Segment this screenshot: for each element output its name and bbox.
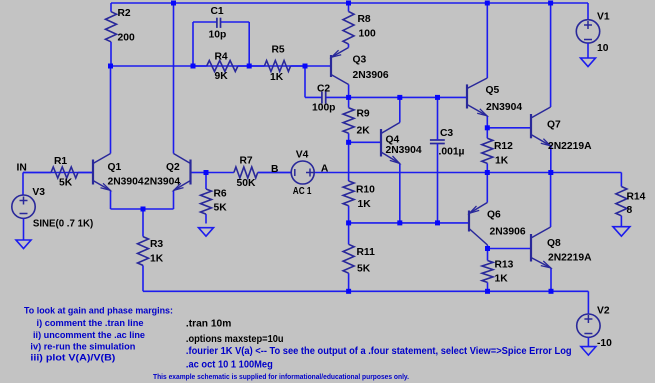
svg-text:5K: 5K [59,178,73,189]
svg-text:9K: 9K [215,71,229,82]
svg-text:2N3906: 2N3906 [490,227,526,238]
voltage source V1 [576,20,599,43]
resistor R9 [343,97,354,142]
svg-text:A: A [321,163,329,174]
svg-text:.options maxstep=10u: .options maxstep=10u [186,334,284,345]
svg-text:Q1: Q1 [108,162,122,173]
resistor R6 label [214,188,228,213]
svg-text:1K: 1K [150,254,164,265]
svg-text:C1: C1 [211,6,224,17]
svg-text:R9: R9 [357,108,370,119]
wire Q7 emitter drop [550,146,552,173]
resistor R8 label [358,14,376,40]
svg-text:100p: 100p [312,102,335,113]
wire Q2 emitter drop [173,191,175,210]
svg-text:50K: 50K [237,178,256,189]
wire V2 feed [587,291,589,314]
transistor Q6 [469,203,488,246]
node B [271,164,278,175]
node A [321,163,329,174]
resistor R5 [249,61,305,72]
svg-text:SINE(0 .7 1K): SINE(0 .7 1K) [33,218,93,229]
resistor R3 [138,209,149,265]
voltage source V3 label [32,187,93,229]
svg-text:Q2: Q2 [166,162,180,173]
svg-text:200: 200 [118,33,135,44]
directive fourier [186,346,572,357]
node IN [17,163,27,174]
svg-text:B: B [271,164,278,175]
svg-text:2N3904: 2N3904 [486,102,522,113]
resistor R10 label [356,185,375,210]
resistor R13 [482,249,493,292]
wire input segment [23,172,93,174]
resistor R12 label [494,141,513,166]
wire Q5 collector riser [486,3,488,78]
svg-text:.001µ: .001µ [439,147,465,158]
wire top rail [111,2,588,4]
svg-text:V3: V3 [32,187,45,198]
transistor Q6 label [487,210,526,238]
resistor R8 [343,3,354,48]
svg-text:R2: R2 [118,8,131,19]
svg-text:10: 10 [597,43,609,54]
svg-text:R10: R10 [356,185,375,196]
svg-text:This example schematic is supp: This example schematic is supplied for i… [153,372,409,381]
wire Q8 collector riser [550,173,552,228]
svg-text:1K: 1K [270,72,284,83]
wire y97 rail to Q5 base [349,96,467,98]
note gain-margins line5 [30,353,115,363]
resistor R6 [201,173,212,224]
svg-text:R12: R12 [494,141,513,152]
resistor R14 [616,187,627,227]
wire C2 left lead [305,96,322,98]
wire mid rail y66 [111,65,332,67]
svg-text:AC 1: AC 1 [293,186,312,197]
svg-text:R11: R11 [357,247,376,258]
svg-text:R5: R5 [272,45,285,56]
svg-text:IN: IN [17,163,27,174]
svg-text:R8: R8 [358,14,371,25]
svg-text:R14: R14 [627,191,646,202]
wire C2 right lead [326,96,349,98]
resistor R1 label [54,156,73,188]
ground V2 [581,347,596,356]
transistor Q1 [93,154,111,191]
voltage source V2 label [597,306,612,349]
transistor Q5 [467,78,487,116]
svg-text:8: 8 [627,205,633,216]
svg-text:iv) re-run the simulation: iv) re-run the simulation [30,341,135,351]
wire B segment [258,172,292,174]
wire Q6 emitter riser [486,173,488,203]
resistor R10 [343,181,354,223]
svg-text:1K: 1K [358,199,372,210]
voltage source V3 [12,195,35,218]
directive ac [186,359,273,370]
transistor Q5 label [486,85,523,113]
wire Q8 emitter drop [550,268,552,292]
directive options [186,334,284,345]
svg-text:To look at gain and phase marg: To look at gain and phase margins: [24,306,173,316]
capacitor C3 label [439,128,465,158]
capacitor C2 label [312,83,335,113]
wire V2 gnd lead [587,338,589,347]
svg-text:2N3904: 2N3904 [108,177,144,188]
resistor R12 [482,128,493,173]
resistor R9 label [357,108,371,136]
svg-text:R1: R1 [54,156,67,167]
wire R10 top lead [348,142,350,181]
wire A segment [314,172,621,174]
svg-text:i) comment the .tran line: i) comment the .tran line [37,318,144,328]
note disclaimer [153,372,409,381]
wire R3 corner [142,265,144,291]
wire Q2 collector riser [173,3,175,154]
wire Q1 collector riser [110,66,112,154]
transistor Q8 label [547,238,592,264]
svg-text:R4: R4 [215,51,228,62]
ground V3 [16,240,31,249]
svg-text:Q3: Q3 [353,54,367,65]
svg-text:-10: -10 [597,338,612,349]
resistor R2 label [118,8,135,44]
wire V3 gnd lead [23,218,25,240]
wire Q4 emitter drop [399,164,401,223]
note gain-margins line1 [24,306,173,316]
svg-text:V1: V1 [597,12,610,23]
svg-text:Q7: Q7 [547,119,561,130]
resistor R4 [193,61,249,72]
svg-text:R13: R13 [495,260,514,271]
resistor R5 label [270,45,285,84]
svg-text:.tran 10m: .tran 10m [186,319,232,330]
voltage source V2 feed [577,314,600,337]
svg-text:2K: 2K [357,125,371,136]
capacitor C3 [430,97,445,222]
transistor Q7 label [547,119,592,152]
transistor Q2 [174,154,191,191]
svg-text:1K: 1K [495,155,509,166]
capacitor C1 [217,18,221,28]
wire Q4 collector riser [399,97,401,122]
transistor Q3 label [353,54,389,81]
svg-text:5K: 5K [357,264,371,275]
wire emitter join [111,208,174,210]
wire V1 gnd lead [587,43,589,58]
svg-text:Q8: Q8 [547,238,561,249]
resistor R13 label [495,260,514,285]
svg-text:.ac oct 10 1 100Meg: .ac oct 10 1 100Meg [186,359,273,370]
resistor R4 label [215,51,229,82]
svg-text:.fourier 1K V(a) <-- To see th: .fourier 1K V(a) <-- To see the output o… [186,346,572,357]
svg-text:Q5: Q5 [486,85,500,96]
svg-text:C3: C3 [440,128,453,139]
voltage source V4 [291,161,314,184]
voltage source V1 label [597,12,610,54]
svg-text:10p: 10p [209,29,227,40]
note gain-margins line3 [33,330,145,340]
directive tran [186,319,232,330]
wire Q5 emitter drop [486,116,488,128]
wire V1 feed [587,3,589,20]
capacitor C2 [322,92,326,104]
svg-text:1K: 1K [495,273,509,284]
transistor Q3 [331,48,349,98]
wire Q1 emitter drop [110,191,112,210]
transistor Q2 label [144,162,180,188]
svg-text:ii) uncomment the .ac line: ii) uncomment the .ac line [33,330,145,340]
transistor Q4 [381,123,400,164]
resistor R7 [206,167,291,178]
transistor Q4 label [386,135,422,156]
wire Q7 collector riser [550,3,552,107]
resistor R14 label [627,191,646,216]
resistor R11 [343,223,354,291]
resistor R2 [106,3,117,66]
transistor Q8 [531,227,551,268]
ground V1 [581,58,596,67]
voltage source V4 label [293,150,312,198]
capacitor C1 label [209,6,227,40]
svg-text:iii) plot V(A)/V(B): iii) plot V(A)/V(B) [30,353,115,363]
wire rail y223 [349,222,469,224]
wire V3 drop [22,173,24,196]
svg-text:V4: V4 [296,150,309,161]
resistor R7 label [237,155,256,189]
wire C2 branch down [304,66,306,97]
ground R6 [199,228,214,237]
wire Q5 Q7 base link [487,127,531,129]
svg-text:2N3904: 2N3904 [386,145,422,156]
svg-text:Q4: Q4 [386,135,400,146]
resistor R3 label [150,239,164,264]
wire Q6 Q8 base link [488,248,532,250]
wire Q2 base lead [191,172,207,174]
transistor Q7 [531,107,551,146]
note gain-margins line2 [37,318,144,328]
svg-text:5K: 5K [214,203,228,214]
svg-text:V2: V2 [597,306,610,317]
svg-text:2N3906: 2N3906 [353,70,389,81]
ground R14 [613,227,630,237]
wire Q6 collector stub [487,245,489,249]
svg-text:2N3904: 2N3904 [144,177,180,188]
svg-text:R3: R3 [150,239,163,250]
wire R9 base link [349,141,381,143]
wire bottom rail [143,290,588,292]
note gain-margins line4 [30,341,135,351]
svg-text:R7: R7 [240,155,253,166]
resistor R1 [23,167,93,178]
transistor Q1 label [108,162,144,188]
resistor R11 label [357,247,376,274]
svg-text:2N2219A: 2N2219A [548,141,592,152]
wire C1 right leg [221,22,250,66]
svg-text:R6: R6 [214,188,227,199]
svg-text:2N2219A: 2N2219A [548,253,592,264]
svg-text:100: 100 [359,29,376,40]
svg-text:C2: C2 [317,83,330,94]
svg-text:Q6: Q6 [487,210,501,221]
wire A to R14 corner [620,173,622,187]
wire C1 left leg [193,22,217,66]
